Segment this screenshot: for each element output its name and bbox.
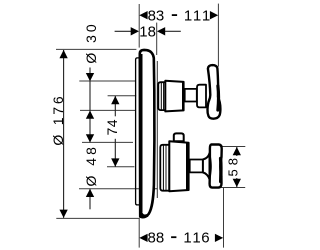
svg-text:Ø 48: Ø 48: [83, 144, 99, 186]
svg-text:74: 74: [104, 119, 120, 136]
svg-text:18: 18: [139, 24, 156, 41]
svg-text:83: 83: [148, 8, 165, 25]
svg-text:1: 1: [202, 8, 210, 25]
svg-text:Ø 176: Ø 176: [50, 94, 66, 146]
svg-text:58: 58: [226, 154, 241, 176]
svg-text:6: 6: [201, 230, 209, 247]
svg-text:1: 1: [184, 8, 192, 25]
svg-text:1: 1: [183, 230, 191, 247]
svg-text:1: 1: [193, 8, 201, 25]
svg-text:1: 1: [192, 230, 200, 247]
svg-text:88: 88: [148, 230, 165, 247]
svg-text:Ø 30: Ø 30: [83, 21, 99, 63]
